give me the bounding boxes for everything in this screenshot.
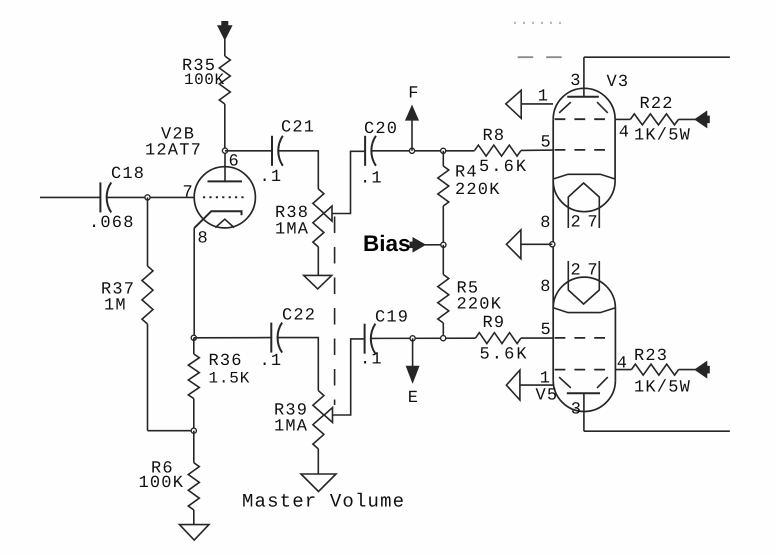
svg-text:100K: 100K bbox=[139, 474, 185, 493]
svg-text:R9: R9 bbox=[483, 314, 506, 333]
svg-text:C22: C22 bbox=[282, 307, 316, 326]
R38 wiper arrow bbox=[324, 206, 332, 221]
svg-text:3: 3 bbox=[570, 72, 581, 91]
wire input bbox=[40, 196, 100, 198]
V3 plate bbox=[567, 96, 599, 98]
svg-text:.068: .068 bbox=[89, 214, 135, 233]
svg-text:220K: 220K bbox=[455, 181, 501, 200]
wire R37 to lower node bbox=[148, 430, 194, 432]
tube V5 envelope bbox=[553, 277, 615, 308]
V5 cathode beam bbox=[553, 308, 615, 313]
V2B plate bbox=[224, 151, 226, 182]
svg-text:4: 4 bbox=[617, 355, 628, 374]
resistor R6 bbox=[188, 463, 199, 510]
node E bbox=[410, 336, 415, 341]
svg-text:8: 8 bbox=[198, 230, 209, 249]
svg-text:R23: R23 bbox=[634, 347, 668, 366]
svg-text:E: E bbox=[408, 389, 419, 408]
wire node to R37 bbox=[147, 197, 149, 266]
V2B heater bbox=[215, 219, 234, 227]
V5 plate bbox=[567, 392, 600, 394]
svg-text:1.5K: 1.5K bbox=[209, 370, 251, 388]
tube V3 left rail bbox=[552, 119, 554, 380]
V3 pin 4 stub bbox=[615, 118, 630, 120]
node F bbox=[409, 148, 414, 153]
ground R38 bbox=[304, 275, 332, 289]
node cathode-R36 bbox=[191, 335, 196, 340]
R39 wiper arrow bbox=[324, 408, 332, 423]
resistor R9 bbox=[476, 333, 521, 344]
wire power to R35 bbox=[224, 39, 226, 56]
wire wiper to C19 bbox=[333, 339, 365, 415]
svg-text:7: 7 bbox=[587, 214, 598, 233]
capacitor C20 bbox=[364, 136, 366, 166]
wire node to R6 bbox=[193, 431, 195, 463]
wire C21 to pot bbox=[278, 151, 318, 189]
gang dashed link bbox=[334, 217, 336, 406]
svg-text:R22: R22 bbox=[640, 95, 674, 114]
node R36-R6 bbox=[191, 428, 196, 433]
wire bias arrow to node bbox=[425, 244, 441, 246]
svg-text:100K: 100K bbox=[184, 71, 225, 89]
svg-text:1: 1 bbox=[540, 370, 551, 389]
svg-text:5.6K: 5.6K bbox=[480, 346, 529, 365]
V5 pin 1 connector bbox=[506, 370, 520, 400]
svg-text:C20: C20 bbox=[364, 120, 398, 139]
node grid junction bbox=[145, 195, 150, 200]
wire R39 to ground bbox=[317, 449, 319, 474]
capacitor C19 bbox=[364, 324, 366, 354]
wire R38 to ground bbox=[317, 247, 319, 275]
svg-text:8: 8 bbox=[540, 278, 551, 297]
resistor R4 bbox=[438, 166, 449, 206]
svg-text:7: 7 bbox=[587, 262, 598, 281]
svg-text:R36: R36 bbox=[209, 352, 243, 371]
connector arrow R22 bbox=[696, 112, 707, 127]
svg-text:.1: .1 bbox=[260, 168, 283, 187]
svg-text:6: 6 bbox=[229, 153, 240, 172]
wire top to right bbox=[584, 56, 730, 58]
svg-text:R8: R8 bbox=[483, 127, 506, 146]
wire R8 to V3 pin5 bbox=[521, 149, 553, 151]
V3 plate wings bbox=[559, 102, 571, 113]
wire R35 to plate node bbox=[224, 104, 226, 151]
V3 screen grid bbox=[555, 118, 606, 120]
resistor R36 bbox=[188, 354, 199, 399]
svg-text:7: 7 bbox=[183, 184, 194, 203]
ground R6 bbox=[179, 525, 209, 541]
svg-text:.1: .1 bbox=[360, 170, 383, 189]
resistor R5 bbox=[438, 275, 449, 324]
tube V3 envelope bbox=[553, 88, 615, 119]
tube V2B envelope bbox=[194, 167, 255, 228]
svg-text:2: 2 bbox=[570, 214, 581, 233]
svg-text:1MA: 1MA bbox=[275, 221, 309, 240]
connector E arrow bbox=[412, 338, 414, 367]
node R4 top bbox=[441, 148, 446, 153]
V3 pin 1 connector bbox=[506, 90, 521, 118]
wire R23 to connector bbox=[679, 369, 696, 371]
resistor R8 bbox=[475, 145, 521, 156]
V3 cathode beam bbox=[553, 174, 615, 179]
svg-text:5.6K: 5.6K bbox=[479, 158, 528, 177]
wire R37 down bbox=[147, 324, 149, 431]
node plate bbox=[222, 148, 227, 153]
V3 control grid bbox=[555, 149, 606, 151]
wire R22 to connector bbox=[679, 118, 696, 120]
capacitor C22 bbox=[270, 323, 272, 353]
wire R6 to ground bbox=[193, 510, 195, 525]
wire wiper to C20 bbox=[332, 151, 365, 213]
ground R39 Master Volume bbox=[301, 474, 336, 492]
svg-text:V3: V3 bbox=[607, 73, 630, 92]
svg-text:V5: V5 bbox=[536, 387, 559, 406]
wire cathode down bbox=[193, 228, 195, 338]
resistor R23 bbox=[631, 364, 678, 375]
wire node to C22 bbox=[194, 337, 271, 339]
wire C20 to R8 bbox=[371, 150, 474, 152]
resistor R35 bbox=[219, 56, 230, 104]
svg-text:R4: R4 bbox=[455, 164, 478, 183]
svg-text:5: 5 bbox=[541, 134, 552, 153]
svg-text:4: 4 bbox=[619, 124, 630, 143]
V5 control grid bbox=[555, 369, 606, 371]
V5 pin 3 wire bbox=[583, 393, 585, 431]
artifact dots top bbox=[514, 22, 567, 24]
potentiometer R39 bbox=[313, 391, 324, 449]
V5 pin 4 stub bbox=[615, 369, 631, 371]
svg-text:C19: C19 bbox=[375, 309, 409, 328]
svg-text:1: 1 bbox=[538, 88, 549, 107]
resistor R22 bbox=[630, 114, 678, 125]
svg-text:12AT7: 12AT7 bbox=[145, 142, 202, 161]
power symbol bbox=[218, 26, 231, 39]
capacitor C21 bbox=[271, 136, 273, 166]
svg-text:Bias: Bias bbox=[363, 231, 411, 256]
wire bottom to right bbox=[584, 430, 730, 432]
V3 pin 3 wire bbox=[583, 57, 585, 96]
wire C19 to R9 bbox=[371, 337, 476, 339]
svg-text:5: 5 bbox=[541, 321, 552, 340]
V5 screen grid bbox=[555, 337, 606, 339]
svg-text:8: 8 bbox=[540, 214, 551, 233]
cathode connector arrow bbox=[506, 230, 521, 259]
wire C22 to pot R39 bbox=[277, 338, 318, 391]
svg-text:Master Volume: Master Volume bbox=[242, 491, 405, 513]
svg-text:C18: C18 bbox=[111, 165, 145, 184]
svg-text:1K/5W: 1K/5W bbox=[634, 127, 691, 146]
resistor R37 bbox=[142, 266, 153, 324]
svg-text:1MA: 1MA bbox=[274, 418, 308, 437]
svg-text:1M: 1M bbox=[104, 297, 127, 316]
V5 base key bbox=[568, 261, 599, 304]
svg-text:.1: .1 bbox=[260, 352, 283, 371]
svg-text:2: 2 bbox=[570, 262, 581, 281]
Bias arrow bbox=[410, 242, 413, 248]
artifact dashes top bbox=[518, 56, 566, 58]
wire node to C21 bbox=[225, 150, 272, 152]
svg-text:3: 3 bbox=[571, 401, 582, 420]
node cathodes bbox=[550, 242, 555, 247]
V2B cathode bbox=[195, 211, 242, 228]
V3 base key bbox=[568, 183, 599, 228]
svg-text:1K/5W: 1K/5W bbox=[634, 379, 691, 398]
capacitor C18 bbox=[99, 182, 101, 212]
node Bias bbox=[441, 242, 446, 247]
svg-text:.1: .1 bbox=[360, 351, 383, 370]
svg-text:C21: C21 bbox=[281, 119, 315, 138]
V5 plate wings bbox=[559, 377, 571, 388]
potentiometer R38 bbox=[313, 189, 324, 247]
connector arrow R23 bbox=[696, 362, 707, 377]
wire C18 to grid bbox=[108, 196, 195, 198]
node R5 bottom bbox=[441, 336, 446, 341]
svg-text:F: F bbox=[408, 85, 419, 104]
svg-text:220K: 220K bbox=[457, 296, 503, 315]
connector F arrow bbox=[411, 121, 413, 151]
V2B grid bbox=[203, 196, 247, 198]
wire R9 to V5 pin5 bbox=[521, 337, 553, 339]
